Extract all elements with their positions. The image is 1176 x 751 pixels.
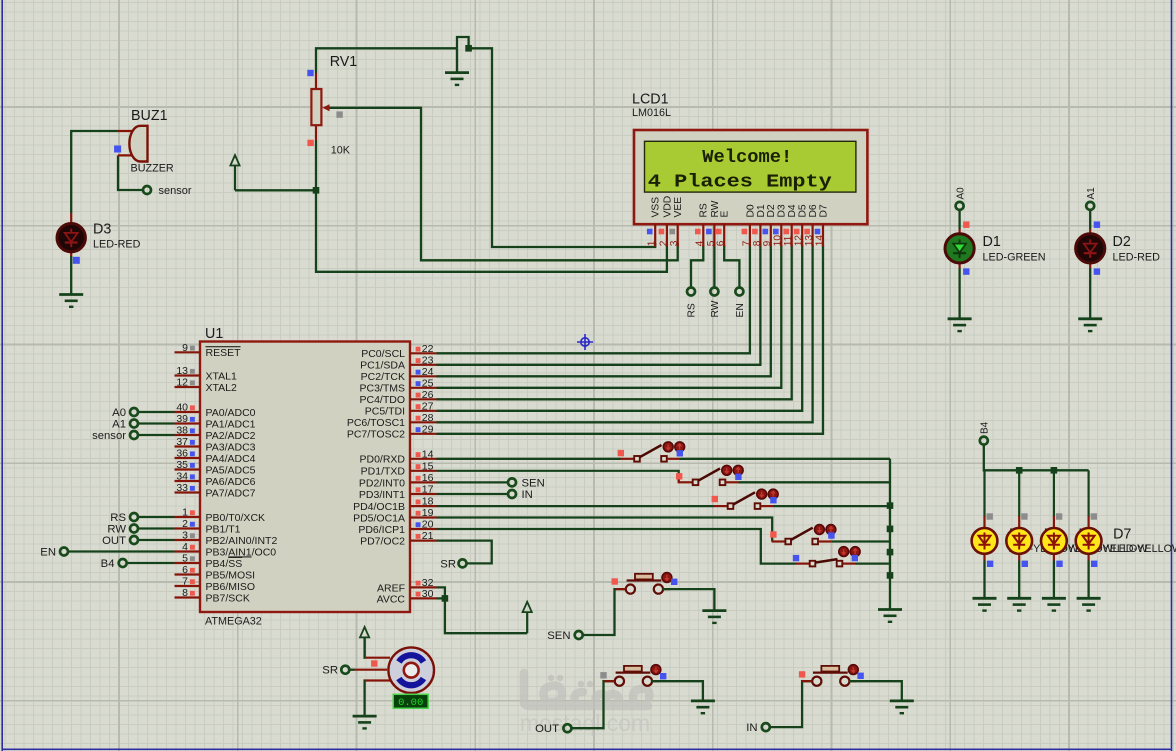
wire LCD D5 to U1 PC5 <box>437 245 803 411</box>
U1 pin 17 PD3 (right) <box>410 493 437 495</box>
svg-text:0.00: 0.00 <box>398 697 423 709</box>
svg-text:D5: D5 <box>798 204 809 217</box>
svg-text:OUT: OUT <box>535 723 559 735</box>
svg-text:5: 5 <box>182 553 188 565</box>
switch SW4 <box>772 540 786 542</box>
U1 pin 6 PB5 (left) <box>175 573 201 575</box>
svg-text:PB2/AIN0/INT2: PB2/AIN0/INT2 <box>206 535 278 547</box>
wire D2 to ground <box>1089 268 1091 319</box>
node SEN (right of U1) <box>437 481 508 483</box>
svg-text:A0: A0 <box>112 407 126 419</box>
LCD1 pin 12 D5 <box>801 224 803 246</box>
origin marker <box>577 334 593 350</box>
svg-text:23: 23 <box>422 354 434 366</box>
U1 pin 39 PA1 (left) <box>175 422 201 424</box>
wire IN button to ground <box>849 681 902 701</box>
LCD1 pin 5 RW <box>713 224 715 246</box>
U1 pin 4 PB3 (left) <box>175 550 201 552</box>
svg-text:LED-YELLOW: LED-YELLOW <box>1113 543 1176 555</box>
U1 pin 38 PA2 (left) <box>175 434 201 436</box>
svg-text:RS: RS <box>110 512 126 524</box>
U1 pin 7 PB6 (left) <box>175 585 201 587</box>
motor rpm display 0.00 <box>393 694 428 709</box>
svg-text:RW: RW <box>710 300 721 317</box>
wire LCD RW pin5 <box>713 245 715 287</box>
svg-text:PD0/RXD: PD0/RXD <box>359 454 405 466</box>
svg-text:Welcome!: Welcome! <box>702 147 792 168</box>
svg-text:SEN: SEN <box>547 630 570 642</box>
svg-text:IN: IN <box>522 489 533 501</box>
LCD1 pin 14 D7 <box>822 224 824 246</box>
svg-text:26: 26 <box>422 389 434 401</box>
svg-text:sensor: sensor <box>159 185 192 197</box>
svg-text:BUZZER: BUZZER <box>131 163 174 175</box>
svg-text:13: 13 <box>804 235 815 247</box>
node SR (motor) <box>341 666 349 674</box>
U1 pin 3 PB2 (left) <box>175 539 201 541</box>
buzzer BUZ1 <box>118 126 148 162</box>
svg-text:10: 10 <box>773 235 784 247</box>
svg-text:16: 16 <box>422 472 434 484</box>
node OUT (left) <box>138 539 174 541</box>
U1 pin 33 PA7 (left) <box>175 491 201 493</box>
wire D1 to ground <box>958 268 960 319</box>
diode D6 LED-YELLOW <box>1053 470 1055 517</box>
ground D7 <box>1077 598 1101 610</box>
wire LCD D0 to U1 PC0 <box>437 245 750 353</box>
svg-text:PD3/INT1: PD3/INT1 <box>359 489 405 501</box>
U1 pin 37 PA3 (left) <box>175 445 201 447</box>
wire D3 to ground <box>70 256 72 295</box>
U1 pin 21 PD7 (right) <box>410 539 437 541</box>
LCD1 pin 11 D4 <box>791 224 793 246</box>
svg-text:36: 36 <box>176 448 188 460</box>
U1 pin 26 PC4 (right) <box>410 398 437 400</box>
U1 pin 9 RESET (left) <box>175 351 201 353</box>
U1 pin 15 PD1 (right) <box>410 470 437 472</box>
svg-text:D2: D2 <box>766 204 777 217</box>
wire B4 bus <box>984 445 1089 470</box>
svg-text:B4: B4 <box>101 558 115 570</box>
svg-text:XTAL2: XTAL2 <box>206 382 237 394</box>
svg-text:LED-RED: LED-RED <box>1113 252 1161 264</box>
wire SEN to button <box>583 589 626 635</box>
svg-text:PC2/TCK: PC2/TCK <box>361 371 405 383</box>
svg-text:3: 3 <box>182 530 188 542</box>
svg-text:11: 11 <box>783 235 794 246</box>
svg-text:PD7/OC2: PD7/OC2 <box>360 536 405 548</box>
svg-text:6: 6 <box>182 564 188 576</box>
wire LCD D7 to U1 PC7 <box>437 245 824 434</box>
svg-text:2: 2 <box>182 518 188 530</box>
svg-text:D0: D0 <box>745 204 756 217</box>
svg-text:PB7/SCK: PB7/SCK <box>206 592 250 604</box>
node SR (near U1) <box>459 559 467 567</box>
wire buzzer bottom to sensor terminal <box>118 155 143 190</box>
svg-text:15: 15 <box>422 460 434 472</box>
svg-text:PD6/ICP1: PD6/ICP1 <box>358 524 405 536</box>
wire SW2 to bus <box>739 481 891 483</box>
wire SR to motor <box>350 669 355 671</box>
svg-text:IN: IN <box>746 722 757 734</box>
svg-text:22: 22 <box>422 343 434 355</box>
ground top <box>456 48 458 72</box>
svg-text:U1: U1 <box>205 326 223 342</box>
svg-text:VSS: VSS <box>651 197 662 218</box>
node OUT (bottom) <box>563 724 571 732</box>
wire LCD E pin6 <box>724 245 739 287</box>
U1 pin 20 PD6 (right) <box>410 528 437 530</box>
LCD1 pin 9 D2 <box>770 224 772 246</box>
LCD1 pin 1 VSS <box>654 224 656 246</box>
svg-text:PB4/SS: PB4/SS <box>206 558 243 570</box>
LCD1 pin 7 D0 <box>749 224 751 246</box>
svg-text:38: 38 <box>176 425 188 437</box>
svg-text:2: 2 <box>658 240 669 246</box>
switch SW1 <box>621 458 635 460</box>
svg-text:PA7/ADC7: PA7/ADC7 <box>206 487 256 499</box>
svg-text:4: 4 <box>182 541 188 553</box>
svg-text:PB3/AIN1/OC0: PB3/AIN1/OC0 <box>206 546 277 558</box>
node IN (right of U1) <box>437 493 508 495</box>
svg-text:PB0/T0/XCK: PB0/T0/XCK <box>206 512 266 524</box>
motor M1 <box>355 647 435 693</box>
svg-text:D7: D7 <box>818 204 829 217</box>
push button IN <box>812 677 821 686</box>
node A1 (top right) <box>1086 202 1094 210</box>
svg-text:D3: D3 <box>777 204 788 217</box>
svg-text:D1: D1 <box>756 204 767 217</box>
svg-text:RESET: RESET <box>206 347 242 359</box>
svg-text:D7: D7 <box>1113 527 1131 543</box>
U1 pin 27 PC5 (right) <box>410 410 437 412</box>
svg-text:24: 24 <box>422 366 434 378</box>
push button SEN <box>626 585 635 594</box>
svg-text:D6: D6 <box>808 204 819 217</box>
wire motor - lead to ground <box>363 681 366 717</box>
svg-text:PC5/TDI: PC5/TDI <box>365 406 405 418</box>
svg-text:LED-GREEN: LED-GREEN <box>983 252 1046 264</box>
svg-text:EN: EN <box>735 303 746 317</box>
svg-text:1: 1 <box>647 240 658 246</box>
diode D7 LED-YELLOW <box>1087 470 1089 517</box>
wire AREF/AVCC to VCC arrow <box>437 587 528 633</box>
svg-text:A0: A0 <box>955 187 966 200</box>
node sensor <box>143 186 151 194</box>
wire buzzer top to D3 <box>71 131 118 213</box>
svg-text:OUT: OUT <box>102 535 126 547</box>
svg-text:EN: EN <box>40 547 56 559</box>
junction bus 4 <box>887 572 894 579</box>
wire SW4 to bus <box>831 540 890 542</box>
wire SW3 to bus <box>774 505 891 507</box>
svg-text:XTAL1: XTAL1 <box>206 370 237 382</box>
push button OUT <box>615 677 624 686</box>
svg-text:14: 14 <box>422 448 434 460</box>
svg-text:PA1/ADC1: PA1/ADC1 <box>206 418 256 430</box>
node RW (left) <box>138 527 174 529</box>
svg-text:PC3/TMS: PC3/TMS <box>359 383 405 395</box>
svg-text:LCD1: LCD1 <box>632 92 669 108</box>
svg-text:LM016L: LM016L <box>632 107 671 119</box>
svg-text:RW: RW <box>107 524 126 536</box>
LCD1 pin 13 D6 <box>811 224 813 246</box>
wire PD7 to SR <box>437 541 492 564</box>
wire A0 to D1 <box>958 210 960 229</box>
svg-text:28: 28 <box>422 412 434 424</box>
svg-text:VEE: VEE <box>673 197 684 218</box>
svg-text:VDD: VDD <box>662 196 673 218</box>
U1 pin 19 PD5 (right) <box>410 516 437 518</box>
svg-text:34: 34 <box>176 471 188 483</box>
node B4 (top of LED bank) <box>980 437 988 445</box>
ground motor <box>353 716 377 728</box>
svg-text:SR: SR <box>440 559 456 571</box>
svg-text:PB6/MISO: PB6/MISO <box>206 581 256 593</box>
svg-text:8: 8 <box>182 587 188 599</box>
svg-text:sensor: sensor <box>92 430 126 442</box>
wire D7 to ground <box>1087 561 1089 599</box>
node SEN (bottom) <box>575 631 583 639</box>
ground OUT button <box>691 701 715 713</box>
svg-text:30: 30 <box>422 588 434 600</box>
svg-text:RS: RS <box>687 303 698 317</box>
svg-text:PA6/ADC6: PA6/ADC6 <box>206 476 256 488</box>
svg-text:PB5/MOSI: PB5/MOSI <box>206 569 256 581</box>
svg-text:4: 4 <box>695 240 706 246</box>
wire OUT to button <box>572 681 615 728</box>
ground SEN button <box>702 611 726 623</box>
svg-text:PA2/ADC2: PA2/ADC2 <box>206 430 256 442</box>
svg-text:9: 9 <box>182 342 188 354</box>
power terminal VCC mid <box>523 602 532 633</box>
ground D1 <box>948 319 972 331</box>
LCD1 pin 10 D3 <box>780 224 782 246</box>
node RW under LCD <box>710 288 718 296</box>
U1 pin 18 PD4 (right) <box>410 505 437 507</box>
op-amp U1 ATMEGA32 body <box>200 342 410 613</box>
node RS under LCD <box>687 288 695 296</box>
node A0 (left) <box>138 411 174 413</box>
svg-text:7: 7 <box>741 240 752 246</box>
svg-text:37: 37 <box>176 436 188 448</box>
power terminal VCC near RV1 <box>230 155 239 190</box>
svg-text:7: 7 <box>182 576 188 588</box>
junction bus 1 <box>887 502 894 509</box>
wire LCD D1 to U1 PC1 <box>437 245 761 365</box>
U1 pin 32 AREF (right) <box>410 586 437 588</box>
wire LCD D3 to U1 PC3 <box>437 245 782 388</box>
switch SW3 <box>714 505 728 507</box>
node RS (left) <box>138 516 174 518</box>
diode D3 LED-RED <box>70 213 72 256</box>
U1 pin 16 PD2 (right) <box>410 481 437 483</box>
U1 pin 12 XTAL2 (left) <box>175 386 201 388</box>
svg-text:33: 33 <box>176 482 188 494</box>
wire vcc arrow to RV1 bottom <box>235 189 316 191</box>
node IN (bottom) <box>762 723 770 731</box>
svg-text:E: E <box>720 211 731 218</box>
svg-text:13: 13 <box>176 365 188 377</box>
wire pot top to top ground net <box>316 48 457 73</box>
wire RV1 wiper to LCD VEE <box>329 108 678 260</box>
svg-text:29: 29 <box>422 423 434 435</box>
U1 pin 25 PC3 (right) <box>410 387 437 389</box>
svg-text:D2: D2 <box>1113 234 1131 250</box>
svg-text:9: 9 <box>762 240 773 246</box>
svg-text:AVCC: AVCC <box>377 593 406 605</box>
svg-text:B4: B4 <box>980 421 991 434</box>
wire ground loop box <box>457 37 655 247</box>
power terminal VCC motor <box>360 627 369 658</box>
LCD LCD1 LM016L <box>634 130 867 224</box>
wire switch bus <box>889 459 891 610</box>
diode D4 LED-YELLOW <box>983 470 985 517</box>
U1 pin 23 PC1 (right) <box>410 364 437 366</box>
LCD1 pin 3 VEE <box>677 224 679 246</box>
svg-text:12: 12 <box>176 377 188 389</box>
wire PD1 to SW2 <box>437 471 679 483</box>
svg-text:1: 1 <box>182 507 188 519</box>
U1 pin 2 PB1 (left) <box>175 527 201 529</box>
svg-text:20: 20 <box>422 519 434 531</box>
wire SW1 to bus <box>680 458 890 460</box>
ground D5 <box>1007 598 1031 610</box>
wire D5 to ground <box>1018 561 1020 599</box>
wire OUT button to ground <box>652 681 703 701</box>
svg-text:PD2/INT0: PD2/INT0 <box>359 477 405 489</box>
svg-text:17: 17 <box>422 484 434 496</box>
svg-text:ATMEGA32: ATMEGA32 <box>205 616 262 628</box>
node EN under LCD <box>735 288 743 296</box>
junction LED bank 2 <box>1051 467 1058 474</box>
svg-text:PC1/SDA: PC1/SDA <box>360 360 405 372</box>
svg-text:PC7/TOSC2: PC7/TOSC2 <box>347 429 405 441</box>
wire LCD D6 to U1 PC6 <box>437 245 813 422</box>
node A1 (left) <box>138 422 174 424</box>
wire SEN button to ground <box>663 589 715 611</box>
ground D2 <box>1078 319 1102 331</box>
svg-text:SEN: SEN <box>522 477 545 489</box>
junction bus 3 <box>887 549 894 556</box>
node B4 (left) <box>127 562 175 564</box>
U1 pin 29 PC7 (right) <box>410 433 437 435</box>
svg-text:21: 21 <box>422 530 434 542</box>
svg-text:D3: D3 <box>93 222 111 238</box>
svg-text:PC4/TDO: PC4/TDO <box>359 394 405 406</box>
svg-text:A1: A1 <box>1086 187 1097 200</box>
LCD1 pin 2 VDD <box>666 224 668 246</box>
node EN (left) <box>68 550 174 552</box>
svg-text:PC0/SCL: PC0/SCL <box>361 348 405 360</box>
wire PD5 to SW4 <box>437 518 773 542</box>
wire RV1 bottom to LCD VDD <box>316 141 667 272</box>
wire LCD RS pin4 <box>691 245 703 287</box>
wire D6 to ground <box>1053 561 1055 599</box>
U1 pin 36 PA4 (left) <box>175 457 201 459</box>
U1 pin 14 PD0 (right) <box>410 458 437 460</box>
ground IN button <box>890 701 914 713</box>
svg-text:39: 39 <box>176 413 188 425</box>
svg-text:PD1/TXD: PD1/TXD <box>361 466 406 478</box>
svg-text:3: 3 <box>669 240 680 246</box>
svg-text:PA5/ADC5: PA5/ADC5 <box>206 464 256 476</box>
U1 pin 35 PA5 (left) <box>175 468 201 470</box>
svg-text:25: 25 <box>422 377 434 389</box>
svg-text:PB1/T1: PB1/T1 <box>206 523 241 535</box>
junction LED bank 1 <box>1016 467 1023 474</box>
diode D5 LED-YELLOW <box>1018 470 1020 517</box>
node A0 (top right) <box>956 202 964 210</box>
svg-text:D4: D4 <box>787 204 798 217</box>
svg-text:8: 8 <box>752 240 763 246</box>
svg-text:A1: A1 <box>112 419 126 431</box>
U1 pin 28 PC6 (right) <box>410 421 437 423</box>
svg-text:PD4/OC1B: PD4/OC1B <box>353 501 405 513</box>
svg-text:PA4/ADC4: PA4/ADC4 <box>206 453 256 465</box>
LCD1 pin 4 RS <box>702 224 704 246</box>
wire PD6 to SW5 <box>437 529 797 564</box>
ground D3 <box>59 295 83 307</box>
wire PD4 to SW3 <box>437 505 715 507</box>
U1 pin 1 PB0 (left) <box>175 516 201 518</box>
LCD1 pin 6 E <box>723 224 725 246</box>
ground switch bus <box>878 610 902 622</box>
junction bus 2 <box>887 526 894 533</box>
wire LCD D4 to U1 PC4 <box>437 245 792 399</box>
svg-text:PC6/TOSC1: PC6/TOSC1 <box>347 417 405 429</box>
U1 pin 24 PC2 (right) <box>410 375 437 377</box>
svg-text:10K: 10K <box>331 145 351 157</box>
U1 pin 8 PB7 (left) <box>175 596 201 598</box>
svg-text:14: 14 <box>814 235 825 247</box>
svg-text:RV1: RV1 <box>330 54 358 70</box>
wire LCD D2 to U1 PC2 <box>437 245 771 376</box>
wire IN to button <box>770 681 812 727</box>
svg-text:PA3/ADC3: PA3/ADC3 <box>206 441 256 453</box>
wire PD0 to SW1 <box>437 458 621 460</box>
svg-text:LED-RED: LED-RED <box>93 239 141 251</box>
svg-text:BUZ1: BUZ1 <box>131 108 168 124</box>
svg-text:RS: RS <box>699 203 710 217</box>
junction AVCC <box>442 595 449 602</box>
svg-text:19: 19 <box>422 507 434 519</box>
svg-text:SR: SR <box>322 665 338 677</box>
node sensor (left) <box>138 434 174 436</box>
svg-text:4 Places Empty: 4 Places Empty <box>648 172 832 193</box>
U1 pin 30 AVCC (right) <box>410 597 437 599</box>
svg-text:35: 35 <box>176 459 188 471</box>
junction RV1 bottom <box>313 187 320 194</box>
svg-text:D1: D1 <box>983 234 1001 250</box>
wire D4 to ground <box>983 561 985 599</box>
svg-text:40: 40 <box>176 402 188 414</box>
svg-text:27: 27 <box>422 400 434 412</box>
ground D4 <box>973 598 997 610</box>
diode D1 LED-GREEN <box>945 234 974 263</box>
svg-text:PA0/ADC0: PA0/ADC0 <box>206 407 256 419</box>
svg-text:PD5/OC1A: PD5/OC1A <box>353 512 405 524</box>
U1 pin 13 XTAL1 (left) <box>175 374 201 376</box>
U1 pin 22 PC0 (right) <box>410 352 437 354</box>
svg-text:18: 18 <box>422 496 434 508</box>
wire A1 to D2 <box>1089 210 1091 229</box>
ground D6 <box>1042 598 1066 610</box>
wire SW5 to bus <box>856 562 891 564</box>
junction top ground net <box>465 45 472 52</box>
wire vcc to motor + lead <box>363 637 366 657</box>
svg-text:12: 12 <box>794 235 805 247</box>
